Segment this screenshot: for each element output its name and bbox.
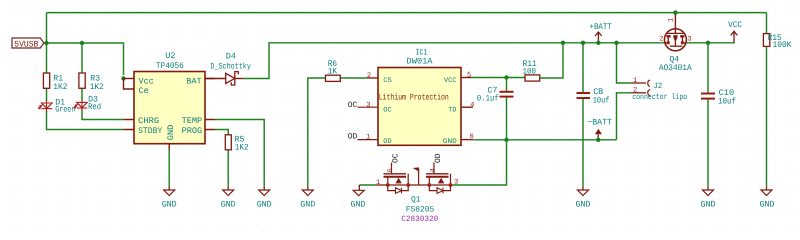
svg-text:5: 5 [467,71,471,79]
svg-text:D4: D4 [226,51,236,61]
transistor Q1 FS8205 dual mosfet [376,153,458,224]
wire TEMP to GND [215,120,264,186]
svg-text:OD: OD [348,133,358,142]
svg-text:1K2: 1K2 [53,82,67,92]
svg-text:connector lipo: connector lipo [632,93,687,102]
wire PROG to R5 [215,130,228,186]
svg-text:GND: GND [300,200,315,210]
power +BATT [590,22,612,43]
svg-text:5VUSB: 5VUSB [14,39,38,49]
IC IC1 DW01A [378,47,461,145]
svg-text:1: 1 [633,77,637,85]
node junction R3 column [80,41,84,45]
svg-text:10uf: 10uf [718,97,736,107]
diode D4 D_Schottky [205,51,251,85]
resistor R5 [225,134,248,152]
svg-text:D_Schottky: D_Schottky [210,61,251,71]
IC1 pin numbers [366,71,474,141]
ground GND under R6 [300,186,315,210]
U2 pin stubs [124,79,216,151]
ground GND at Q1 left [351,185,366,210]
svg-text:GND: GND [576,200,591,210]
ground GND under C10 [701,186,716,210]
svg-text:FS8205: FS8205 [406,205,435,214]
svg-text:CHRG: CHRG [138,116,159,126]
resistor R1 [43,73,67,92]
ground GND under TEMP [257,186,272,210]
node junction J2 pin1 top [614,41,618,45]
node junction Q4 gate on top rail [673,10,677,14]
node junction Vcc-Ce [121,76,125,80]
svg-text:4: 4 [470,101,474,109]
node junction C7 bottom [504,138,508,142]
connector J2 [617,43,688,102]
node label OC [348,101,378,110]
U2 pin names [138,76,202,140]
svg-text:VCC: VCC [444,77,457,85]
wire VCC pin5 to R11 and C7 [472,77,526,79]
svg-text:2: 2 [367,72,371,80]
right unit [433,163,435,174]
svg-text:100: 100 [523,67,537,77]
IC U2 TP4056 [134,51,205,144]
svg-text:GND: GND [162,200,177,210]
svg-text:OC: OC [383,106,391,114]
svg-text:GND: GND [701,200,716,210]
svg-text:GND: GND [166,125,176,141]
svg-text:3: 3 [366,102,370,110]
svg-text:STDBY: STDBY [138,126,162,136]
ground GND under R5 [221,186,236,210]
IC1 pin stubs [368,78,474,140]
capacitor C10 [701,43,736,186]
wire R1 column [47,43,125,130]
svg-text:GND: GND [760,200,775,210]
wire Q1 left to GND [359,184,376,186]
svg-text:CS: CS [383,77,391,85]
wire top rail 5VUSB [47,12,767,14]
LED D1 Green [39,101,53,113]
wire R3 column [82,43,124,120]
wire BAT net to +BATT rail [243,43,664,79]
LED D3 Red [74,100,87,111]
wire left vertical from 5VUSB to top rail [46,13,48,43]
svg-text:Ce: Ce [139,86,149,96]
wire C7/pin6 column down to Q1 [451,140,507,185]
svg-text:J2: J2 [654,82,663,91]
wire 5VUSB row to TP4056 Vcc [44,43,124,75]
svg-text:10uf: 10uf [593,96,610,106]
capacitor CB [577,43,610,186]
power -BATT [587,117,612,139]
svg-text:AO3401A: AO3401A [659,63,693,73]
left unit [391,163,393,174]
svg-text:BAT: BAT [186,76,201,86]
svg-text:GND: GND [443,138,457,146]
ground GND under U2 [162,186,177,210]
node junction -BATT [596,138,600,142]
svg-text:VCC: VCC [728,20,742,30]
svg-text:1: 1 [376,179,380,187]
wire GND pin6 row [473,93,631,140]
transistor Q4 AO3401A [659,13,693,73]
svg-text:OD: OD [383,138,391,146]
capacitor C7 [477,78,514,141]
svg-text:6: 6 [387,168,395,172]
node junction CB top [581,41,585,45]
resistor R15 [763,13,792,186]
wire Q4 drain to VCC [686,42,734,44]
svg-text:TP4056: TP4056 [156,61,184,71]
node junction 5VUSB [44,41,48,45]
node junction +BATT [596,41,600,45]
svg-text:1K2: 1K2 [90,82,104,92]
svg-text:U2: U2 [165,51,175,61]
svg-text:−BATT: −BATT [587,117,612,127]
svg-text:Q1: Q1 [411,195,421,204]
svg-text:4: 4 [430,168,438,172]
svg-text:C2830320: C2830320 [401,215,438,224]
svg-text:GND: GND [351,200,366,210]
IC1 pin names [383,77,457,146]
node junction C10 top [706,41,710,45]
svg-text:DW01A: DW01A [407,57,434,67]
svg-text:+BATT: +BATT [590,22,612,32]
ground GND under R15 [760,186,775,210]
svg-text:3: 3 [454,179,458,187]
svg-text:OD: OD [434,153,443,163]
svg-text:PROG: PROG [182,126,203,136]
svg-text:1K2: 1K2 [235,143,249,153]
svg-text:Red: Red [88,102,101,112]
label 5VUSB [12,38,44,49]
resistor R3 [79,73,104,92]
svg-text:GND: GND [221,200,236,210]
svg-text:Lithium Protection: Lithium Protection [379,93,449,103]
svg-text:Vcc: Vcc [139,76,154,86]
svg-text:2: 2 [659,35,663,43]
resistor R6 [308,59,368,186]
svg-text:0.1uf: 0.1uf [477,93,499,103]
svg-text:1: 1 [667,18,675,22]
power VCC [728,20,742,43]
svg-text:GND: GND [257,200,272,210]
middle stub [418,168,420,185]
svg-text:OC: OC [391,153,400,163]
node junction VCC5 [504,75,508,79]
svg-text:TD: TD [448,106,456,114]
resistor R11 [523,43,564,81]
svg-text:OC: OC [348,101,358,110]
svg-text:1K: 1K [328,66,338,76]
node junction R11 top [561,41,565,45]
svg-text:100K: 100K [773,40,793,50]
svg-text:Green: Green [55,104,75,114]
wire U2 GND pin down [168,150,170,186]
ground GND under CB [576,186,591,210]
node label OD [348,133,378,142]
svg-text:TEMP: TEMP [182,116,203,126]
